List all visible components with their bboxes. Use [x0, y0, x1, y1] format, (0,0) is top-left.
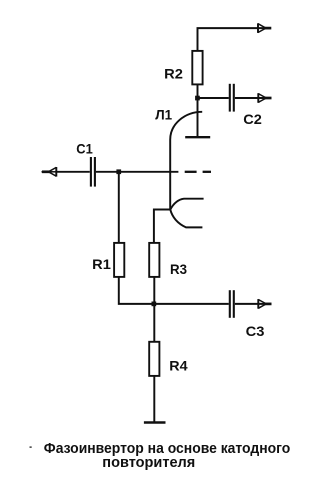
capacitor C1 — [91, 157, 95, 187]
wire R3 bottom lead — [153, 277, 155, 304]
resistor R2 — [192, 51, 202, 85]
wire C2 to arrow — [235, 97, 265, 99]
caption bullet dot — [30, 446, 32, 448]
wire junction to C2 — [198, 97, 229, 99]
wire C1 to grid — [96, 171, 178, 173]
svg-text:R1: R1 — [92, 256, 111, 272]
tube cathode top curve — [170, 199, 203, 210]
svg-text:R4: R4 — [169, 357, 188, 373]
svg-text:R3: R3 — [170, 261, 187, 277]
node junction bottom — [152, 302, 157, 307]
wire arrow to C1 — [56, 171, 90, 173]
svg-text:C2: C2 — [243, 111, 262, 127]
svg-text:Л1: Л1 — [155, 106, 172, 122]
wire C3 to arrow — [235, 303, 265, 305]
output arrow top right — [258, 23, 271, 33]
svg-text:C3: C3 — [246, 323, 265, 339]
ground — [144, 421, 166, 424]
capacitor C3 — [230, 290, 234, 318]
resistor R4 — [149, 342, 159, 376]
output arrow C3 — [258, 299, 271, 309]
input arrow left — [42, 167, 57, 177]
tube anode plate — [185, 136, 210, 138]
capacitor C2 — [230, 84, 234, 112]
wire R2 bottom to anode — [197, 84, 199, 137]
wire R4 to ground — [153, 376, 155, 422]
tube Л1 envelope — [170, 112, 202, 210]
resistor R3 — [149, 243, 159, 277]
svg-text:C1: C1 — [76, 141, 93, 157]
resistor R1 — [114, 243, 124, 277]
node junction anode/C2 — [195, 96, 200, 101]
tube cathode bottom curve — [170, 210, 202, 228]
output arrow C2 — [258, 93, 271, 103]
wire R1 bottom to bottom rail — [119, 277, 229, 304]
svg-text:повторителя: повторителя — [102, 454, 195, 471]
svg-text:R2: R2 — [164, 65, 183, 81]
wire cathode lead to R3 — [154, 210, 170, 243]
wire junction to R4 — [153, 304, 155, 342]
tube grid dashes — [185, 171, 211, 173]
wire grid junction to R1 — [118, 172, 120, 243]
node grid junction — [116, 169, 121, 174]
wire top output (R2 top to arrow) — [198, 28, 266, 51]
